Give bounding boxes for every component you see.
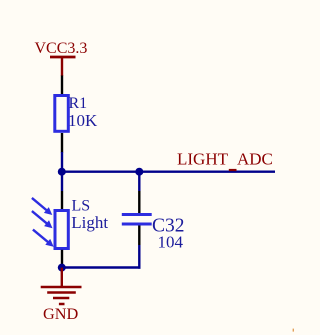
svg-text:VCC3.3: VCC3.3 [35,40,88,57]
svg-text:104: 104 [158,233,184,252]
svg-text:R1: R1 [69,95,88,112]
svg-text:LIGHT: LIGHT [177,149,229,168]
svg-text:LS: LS [72,198,91,215]
svg-text:ADC: ADC [237,149,273,168]
svg-text:GND: GND [43,304,79,323]
svg-text:Light: Light [71,213,108,232]
svg-text:10K: 10K [68,111,98,130]
